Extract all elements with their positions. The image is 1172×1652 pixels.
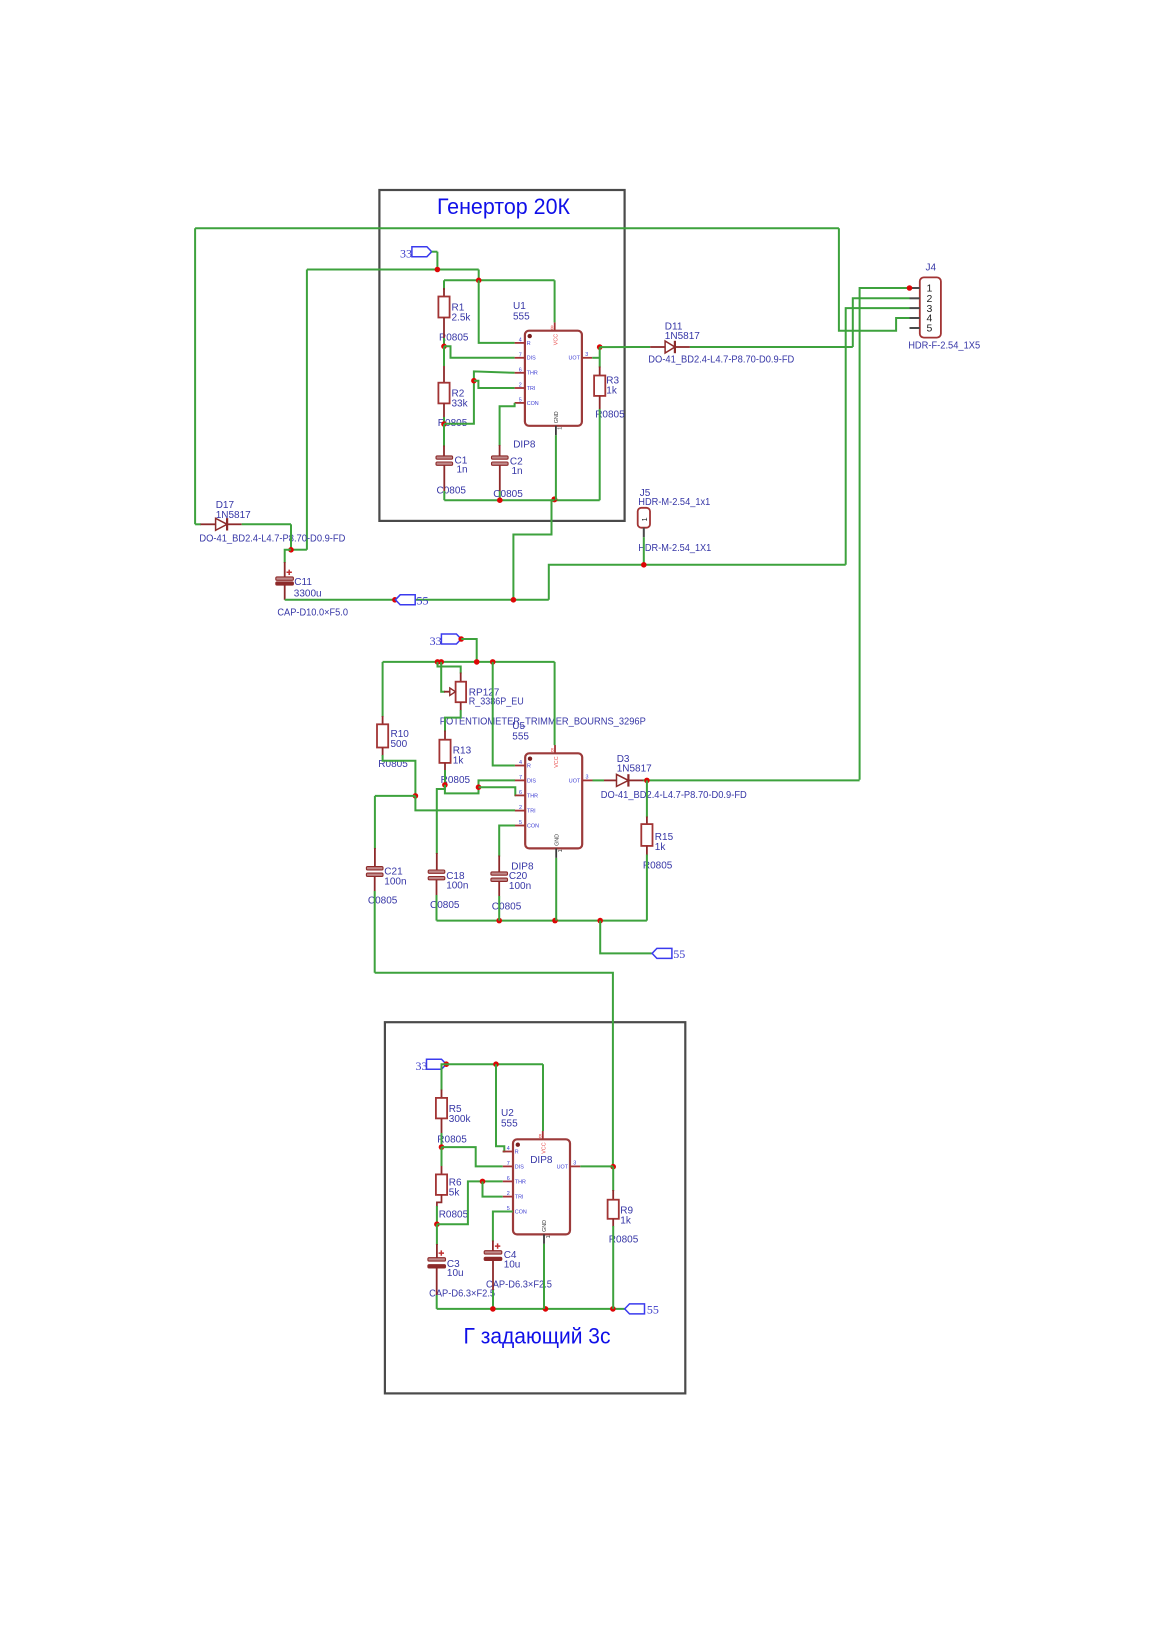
wire net33 left drop (306, 270, 308, 550)
wire R15 top (646, 780, 648, 817)
connector J5 body (638, 508, 650, 528)
lead C20 top (498, 856, 500, 873)
wire to THR2 (479, 787, 516, 795)
svg-text:100n: 100n (384, 876, 406, 887)
svg-text:THR: THR (515, 1179, 526, 1185)
junction mid rail a (435, 659, 441, 665)
wire rail3 to VCC (542, 1064, 544, 1131)
resistor R5 (436, 1098, 447, 1119)
wire rail3 (446, 1063, 543, 1065)
capacitor C11 plates (276, 577, 294, 580)
svg-text:C11: C11 (294, 577, 312, 588)
wire C3 top (436, 1224, 438, 1245)
op-amp U5 555 body (515, 745, 593, 858)
wire R5 bottom (441, 1133, 443, 1147)
lead D17 cathode (227, 523, 242, 525)
capacitor C2 plates (492, 456, 509, 459)
svg-text:CAP-D10.0×F5.0: CAP-D10.0×F5.0 (277, 608, 348, 619)
svg-text:DO-41_BD2.4-L4.7-P8.70-D0.9-FD: DO-41_BD2.4-L4.7-P8.70-D0.9-FD (648, 355, 794, 366)
wire R3 bottom (599, 409, 601, 500)
junction 33a (435, 267, 441, 273)
svg-text:Г задающий 3с: Г задающий 3с (464, 1324, 611, 1349)
J4 pin 1 stub (910, 287, 920, 289)
wire CON2 to C20 (499, 826, 515, 857)
wire to TRI (474, 381, 515, 388)
wire U2 GND drop (543, 1244, 545, 1309)
junction mid rail b (438, 659, 444, 665)
wire net33 to R1 rail (478, 270, 480, 281)
junction mid rail c (474, 659, 480, 665)
junction GND rail (551, 496, 557, 502)
wire pot wiper (441, 662, 445, 692)
wire U5 VCC drop (554, 662, 556, 745)
junction R13 bottom (442, 782, 448, 788)
svg-text:CON: CON (527, 401, 539, 407)
lead pot top (460, 673, 462, 682)
junction R1 bottom (441, 344, 447, 350)
wire to TRI3 (483, 1181, 503, 1196)
junction C11 top (288, 547, 294, 553)
wire UOT2 stub (593, 779, 605, 781)
lead R3 top (599, 367, 601, 376)
wire CON to C2 (500, 403, 515, 446)
svg-text:55: 55 (673, 947, 685, 961)
junction D11 node (597, 344, 603, 350)
svg-text:2: 2 (507, 1191, 510, 1197)
svg-text:GND: GND (554, 411, 560, 423)
svg-text:POTENTIOMETER_TRIMMER_BOURNS_3: POTENTIOMETER_TRIMMER_BOURNS_3296P (440, 716, 646, 727)
svg-text:555: 555 (501, 1118, 518, 1129)
diode D11 (665, 341, 675, 353)
wire UOT3 link (580, 1165, 613, 1167)
J4 pin 2 stub (910, 297, 920, 299)
svg-text:10u: 10u (447, 1268, 464, 1279)
lead R15 bottom (646, 846, 648, 856)
op-amp U2 555 body (503, 1131, 581, 1244)
diode D3 (617, 774, 629, 786)
wire pot top (438, 662, 461, 674)
wire net33 horizontal (307, 269, 479, 271)
junction R1 rail (476, 278, 482, 284)
svg-text:CON: CON (527, 823, 539, 829)
wire R10 top (382, 662, 384, 717)
svg-text:TRI: TRI (527, 809, 536, 815)
wire UOT1 stub (592, 357, 600, 359)
svg-text:VCC: VCC (542, 1142, 548, 1153)
wire J4 pin4 to VCC rail (839, 228, 910, 330)
lead C2 bottom (499, 465, 501, 491)
svg-text:3: 3 (586, 774, 589, 780)
svg-text:DO-41_BD2.4-L4.7-P8.70-D0.9-FD: DO-41_BD2.4-L4.7-P8.70-D0.9-FD (199, 534, 345, 545)
svg-text:DIP8: DIP8 (513, 439, 536, 450)
svg-text:DIS: DIS (527, 356, 536, 362)
wire R6 to THR (437, 1181, 503, 1224)
svg-text:1: 1 (558, 849, 564, 852)
svg-text:CON: CON (515, 1209, 527, 1215)
svg-text:C0805: C0805 (437, 485, 467, 496)
junction THR/TRI (471, 378, 477, 384)
svg-text:DO-41_BD2.4-L4.7-P8.70-D0.9-FD: DO-41_BD2.4-L4.7-P8.70-D0.9-FD (601, 790, 747, 801)
svg-text:8: 8 (551, 748, 554, 754)
junction R2 bottom (441, 421, 447, 427)
lead R10 bottom (382, 748, 384, 757)
resistor R10 (377, 724, 388, 747)
svg-text:555: 555 (513, 311, 530, 322)
lead C18 top (436, 853, 438, 871)
wire R1 bottom (443, 338, 445, 346)
svg-text:1n: 1n (457, 465, 468, 476)
svg-text:6: 6 (519, 790, 522, 796)
lead D11 cathode (675, 346, 690, 348)
junction net55 flag (392, 597, 398, 603)
lead D11 anode (650, 346, 665, 348)
junction rail2 to 55 (597, 918, 603, 924)
svg-text:6: 6 (519, 367, 522, 373)
net flag 33 (box3) (427, 1059, 447, 1069)
svg-text:DIS: DIS (515, 1164, 524, 1170)
svg-text:1k: 1k (620, 1215, 632, 1226)
lead R6 bottom jog (437, 1195, 442, 1207)
svg-text:HDR-M-2.54_1X1: HDR-M-2.54_1X1 (638, 543, 711, 554)
wire R10 bottom (383, 755, 416, 796)
wire UOT to D11 (600, 346, 651, 348)
wire D17 drop (290, 524, 292, 550)
svg-text:C0805: C0805 (492, 901, 522, 912)
wire net55 up right (549, 565, 846, 600)
svg-text:TRI: TRI (527, 386, 536, 392)
resistor R15 (641, 824, 652, 846)
capacitor C20 plates (491, 872, 508, 875)
J4 pin 4 stub (910, 317, 920, 319)
wire flag33c to R5 (442, 1064, 447, 1090)
svg-text:DIP8: DIP8 (530, 1155, 553, 1166)
svg-text:1n: 1n (512, 466, 523, 477)
wire box1 ground rail (444, 499, 599, 501)
svg-text:7: 7 (507, 1161, 510, 1167)
svg-text:HDR-M-2.54_1x1: HDR-M-2.54_1x1 (638, 497, 710, 508)
diode D17 (216, 518, 228, 530)
resistor R9 (608, 1200, 619, 1219)
wire C20 bottom (498, 896, 500, 921)
svg-text:7: 7 (519, 775, 522, 781)
svg-text:R_3386P_EU: R_3386P_EU (469, 696, 524, 707)
resistor R13 (439, 740, 450, 763)
J5 pin stub (643, 528, 645, 538)
svg-text:UOT: UOT (569, 356, 581, 362)
wire C2 bottom (499, 491, 501, 500)
wire R5 to DIS (442, 1147, 503, 1166)
svg-text:8: 8 (551, 326, 554, 332)
wire R13 bottom (444, 770, 446, 785)
lead R5 top (441, 1090, 443, 1098)
wire C21 bottom (374, 891, 376, 973)
wire D17 stub (195, 523, 201, 525)
wire R1 top rail (444, 279, 555, 281)
lead R10 top (382, 716, 384, 724)
junction GND rail2 (552, 918, 558, 924)
svg-text:GND: GND (554, 834, 560, 846)
svg-text:THR: THR (527, 371, 538, 377)
wire gnd chain down (513, 500, 554, 600)
wire C21 link (375, 795, 416, 797)
lead C3 top (436, 1244, 438, 1258)
junction rail3 (493, 1061, 499, 1067)
junction R6 bottom (434, 1221, 440, 1227)
lead R9 top (612, 1190, 614, 1200)
svg-text:R: R (527, 341, 531, 347)
wire R6 bottom (436, 1206, 438, 1224)
wire C18 top (437, 785, 445, 854)
capacitor C3 plates (428, 1258, 446, 1261)
junction THR3 (480, 1179, 486, 1185)
potentiometer RP127 wiper arrow (450, 688, 456, 695)
wire U1 pin4 R (479, 280, 515, 343)
lead R1 top (443, 288, 445, 297)
svg-text:2: 2 (519, 805, 522, 811)
svg-text:R: R (527, 763, 531, 769)
junction flag33b tip (458, 636, 464, 642)
svg-text:3300u: 3300u (294, 588, 322, 599)
wire flag33b (461, 639, 477, 662)
wire D17 out (242, 523, 291, 525)
frame box generator 20K (379, 190, 624, 521)
resistor R2 (438, 383, 449, 404)
wire J5 down (643, 537, 645, 565)
wire flag33a drop (436, 252, 438, 270)
lead C21 bottom (374, 876, 376, 891)
junction R9 rail3 (610, 1306, 616, 1312)
svg-text:5: 5 (927, 323, 933, 335)
net flag 33 (box1) (412, 247, 432, 257)
wire R2 to THR (444, 371, 515, 423)
svg-text:U1: U1 (513, 301, 526, 312)
wire pot bottom (445, 710, 461, 732)
wire R1 lead top (443, 280, 445, 290)
svg-text:300k: 300k (449, 1114, 472, 1125)
wire C21 top (374, 796, 376, 849)
junction DIS2 (476, 784, 482, 790)
wire J4 pin1 down (860, 288, 910, 780)
wire VCC left rail (194, 228, 196, 524)
wire CON3 to C4 (493, 1212, 513, 1242)
svg-text:TRI: TRI (515, 1195, 524, 1201)
J4 pin 3 stub (910, 307, 920, 309)
svg-text:6: 6 (507, 1176, 510, 1182)
svg-text:VCC: VCC (554, 334, 560, 345)
resistor R3 (594, 376, 605, 396)
frame box задающий 3с (385, 1022, 685, 1393)
svg-text:U5: U5 (512, 721, 525, 732)
svg-text:5: 5 (519, 398, 522, 404)
junction D3 node (644, 778, 650, 784)
wire TRI2 link (415, 796, 515, 811)
wire rail3 to R pin (496, 1064, 504, 1151)
svg-text:5: 5 (519, 820, 522, 826)
junction UOT3 node (610, 1164, 616, 1170)
svg-text:555: 555 (512, 731, 529, 742)
lead C4 bottom (492, 1261, 494, 1291)
lead R15 top (646, 817, 648, 825)
wire J4 pin2 down (853, 298, 910, 347)
wire R9 bottom (612, 1226, 614, 1309)
junction C2 rail (497, 497, 503, 503)
lead C1 bottom (443, 465, 445, 491)
svg-text:1k: 1k (606, 386, 618, 397)
svg-text:1: 1 (558, 427, 564, 430)
svg-text:UOT: UOT (557, 1164, 569, 1170)
svg-text:33: 33 (430, 634, 442, 648)
svg-text:8: 8 (539, 1134, 542, 1140)
wire R1 to DIS (444, 346, 515, 358)
wire mid ground rail (437, 920, 647, 922)
lead D3 anode (604, 779, 617, 781)
net flag 55 (box3) (625, 1304, 645, 1314)
wire to box3 (375, 973, 613, 1167)
lead R2 bottom (443, 403, 445, 417)
lead C1 top (443, 446, 445, 457)
junction J5 net55 (641, 562, 647, 568)
lead D17 anode (201, 523, 216, 525)
svg-text:1: 1 (640, 517, 649, 521)
svg-text:C0805: C0805 (430, 900, 460, 911)
junction GND rail3 (543, 1306, 549, 1312)
wire J4 pin3 down (846, 308, 910, 565)
lead R13 bottom (444, 763, 446, 771)
svg-text:100n: 100n (446, 881, 468, 892)
svg-text:HDR-F-2.54_1X5: HDR-F-2.54_1X5 (908, 340, 980, 351)
junction J4 pin1 (907, 285, 913, 291)
wire VCC top rail (195, 227, 839, 229)
net flag 33 (middle) (441, 634, 461, 644)
svg-text:1: 1 (546, 1235, 552, 1238)
svg-text:R0805: R0805 (439, 1209, 469, 1220)
svg-text:1N5817: 1N5817 (617, 764, 652, 775)
svg-text:Генертор 20К: Генертор 20К (437, 194, 570, 219)
svg-text:1k: 1k (453, 755, 465, 766)
capacitor C4 plates (484, 1251, 502, 1254)
svg-text:GND: GND (542, 1220, 548, 1232)
svg-text:R: R (515, 1149, 519, 1155)
svg-text:UOT: UOT (569, 778, 581, 784)
lead R13 top (444, 731, 446, 740)
wire D3 out (643, 779, 860, 781)
resistor R1 (438, 297, 449, 318)
junction C4 rail3 (490, 1306, 496, 1312)
wire box3 ground rail (437, 1308, 625, 1310)
lead C11 bottom (284, 585, 286, 600)
svg-text:4: 4 (519, 338, 522, 344)
capacitor C18 plates (428, 870, 445, 873)
wire R2 top (443, 346, 445, 366)
lead R2 top (443, 366, 445, 383)
svg-text:4: 4 (507, 1146, 510, 1152)
svg-text:10u: 10u (504, 1260, 521, 1271)
connector J4 body (920, 277, 941, 337)
wire net33 join (291, 549, 307, 551)
net flag 55 (top) (395, 595, 415, 605)
wire R9 top (612, 1167, 614, 1191)
wire C11 top (285, 550, 291, 563)
lead D3 cathode (628, 779, 643, 781)
wire U1 GND drop (555, 435, 557, 500)
lead pot bottom (460, 702, 462, 710)
svg-text:55: 55 (647, 1302, 659, 1316)
op-amp U1 555 body (515, 322, 593, 435)
junction R10/C21/TRI (413, 793, 419, 799)
lead C20 bottom (498, 881, 500, 896)
wire D11 out (690, 346, 853, 348)
junction mid rail d (490, 659, 496, 665)
svg-text:3: 3 (585, 352, 588, 358)
wire R13 to THR/DIS (445, 780, 515, 793)
svg-text:4: 4 (519, 760, 522, 766)
wire flag33a tip (432, 251, 438, 253)
svg-text:CAP-D6.3×F2.5: CAP-D6.3×F2.5 (486, 1279, 552, 1290)
svg-text:THR: THR (527, 793, 538, 799)
svg-text:33: 33 (416, 1059, 428, 1073)
svg-text:2.5k: 2.5k (452, 312, 472, 323)
lead R1 bottom (443, 318, 445, 339)
svg-text:55: 55 (417, 593, 429, 607)
lead pot wiper (444, 691, 450, 693)
net flag 55 (middle) (652, 948, 672, 958)
junction R5 bottom (439, 1144, 445, 1150)
wire U5 GND drop (555, 858, 557, 921)
lead C11 top (284, 562, 286, 578)
svg-text:J4: J4 (926, 263, 937, 274)
svg-text:DIS: DIS (527, 778, 536, 784)
lead C4 top (492, 1241, 494, 1252)
svg-text:1N5817: 1N5817 (216, 510, 251, 521)
svg-text:2: 2 (519, 383, 522, 389)
lead R5 bottom (441, 1118, 443, 1133)
lead C3 bottom (436, 1268, 438, 1295)
lead R3 bottom (599, 396, 601, 409)
lead C21 top (374, 848, 376, 867)
svg-text:3: 3 (573, 1160, 576, 1166)
svg-text:5k: 5k (449, 1188, 461, 1199)
wire C18 bottom (436, 895, 438, 921)
wire R6 top (441, 1147, 443, 1166)
svg-text:VCC: VCC (554, 756, 560, 767)
wire C1 bottom (443, 491, 445, 500)
lead R9 bottom (612, 1219, 614, 1227)
svg-text:1N5817: 1N5817 (665, 331, 700, 342)
resistor R6 (436, 1174, 447, 1195)
svg-text:33k: 33k (452, 399, 469, 410)
wire R15 bottom (646, 855, 648, 921)
lead R6 top (441, 1166, 443, 1174)
wire C1 top (443, 424, 445, 447)
lead C18 bottom (436, 880, 438, 895)
svg-text:7: 7 (519, 352, 522, 358)
potentiometer RP127 body (456, 682, 467, 703)
junction net55 gnd (511, 597, 517, 603)
svg-text:C0805: C0805 (368, 896, 398, 907)
svg-text:500: 500 (391, 739, 408, 750)
wire mid rail (383, 661, 555, 663)
wire R3 top (599, 347, 601, 367)
J4 pin 5 stub (910, 327, 920, 329)
wire rail2 to flag55 (600, 921, 652, 954)
svg-text:1k: 1k (655, 842, 667, 853)
wire net55 horizontal (285, 599, 549, 601)
junction flag33c tip (444, 1061, 450, 1067)
wire U5 pin4 R (493, 662, 515, 766)
svg-text:100n: 100n (509, 881, 531, 892)
junction C20 rail2 (496, 918, 502, 924)
wire C3 bottom (436, 1295, 438, 1309)
